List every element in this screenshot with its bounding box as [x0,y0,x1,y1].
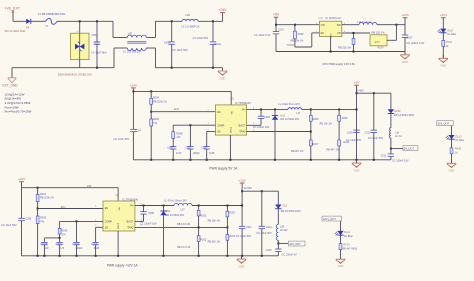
svg-text:EN: EN [321,32,325,35]
svg-text:GND: GND [239,264,245,268]
svg-text:+5V: +5V [273,13,280,17]
svg-text:C211: C211 [246,226,252,229]
svg-text:R102: R102 [298,33,304,36]
svg-text:BOOT: BOOT [127,221,134,224]
svg-text:3n3F: 3n3F [94,247,100,250]
svg-text:C205: C205 [185,146,191,149]
svg-text:R209: R209 [455,148,462,151]
svg-text:R205: R205 [153,118,160,121]
svg-text:LF 2.2: LF 2.2 [395,135,402,138]
svg-text:U2: U2 [231,97,235,101]
svg-text:CC 10uF 50V: CC 10uF 50V [114,137,130,141]
svg-text:R202: R202 [200,214,207,217]
svg-text:5V_OUT: 5V_OUT [404,147,415,151]
svg-text:C20M: C20M [72,243,78,246]
svg-text:C209: C209 [91,243,97,246]
svg-text:5.46V: 5.46V [357,89,364,93]
svg-text:C210: C210 [365,131,371,134]
svg-text:ESD-SMA24CA 170/BZ 24V: ESD-SMA24CA 170/BZ 24V [58,72,92,76]
svg-text:EN2: EN2 [174,108,179,111]
svg-text:CC 10uF 50V: CC 10uF 50V [346,139,361,142]
svg-text:CC 10uF 50V: CC 10uF 50V [368,137,383,140]
svg-text:PWR supply +12V 1A: PWR supply +12V 1A [107,264,139,268]
svg-text:RB 1% N.M.: RB 1% N.M. [177,223,191,226]
svg-text:C206: C206 [26,218,32,221]
svg-text:RB 1% N.M.: RB 1% N.M. [177,246,191,249]
svg-text:RB 19k 1%: RB 19k 1% [208,220,221,223]
svg-text:CC 10uF 50V: CC 10uF 50V [172,48,188,52]
svg-text:C209: C209 [347,131,353,134]
svg-text:LF 2.5 680P 2A: LF 2.5 680P 2A [182,24,200,28]
svg-text:+VE_EXT: +VE_EXT [5,7,21,11]
svg-text:R107: R107 [446,41,453,44]
svg-text:12V1_OUT: 12V1_OUT [323,217,336,221]
svg-text:5V@1A=5W: 5V@1A=5W [5,96,22,100]
svg-text:LF 222: LF 222 [280,229,288,232]
svg-text:TPAD: TPAD [239,131,245,134]
svg-text:R104: R104 [378,47,385,50]
svg-text:D10: D10 [283,205,288,208]
svg-text:L05: L05 [128,32,133,36]
svg-text:100pF: 100pF [193,152,201,155]
svg-text:D4: D4 [26,25,30,29]
svg-text:DR 1A 500A 100V: DR 1A 500A 100V [394,114,414,117]
svg-text:3.3V@0.5A=1.65W: 3.3V@0.5A=1.65W [5,101,31,105]
svg-text:C207: C207 [136,130,142,133]
svg-text:CC 10uF 50V: CC 10uF 50V [257,232,272,235]
svg-text:C207B: C207B [40,243,48,246]
svg-text:GND: GND [220,76,226,80]
svg-text:R209: R209 [62,230,69,233]
svg-text:1nF: 1nF [44,247,49,250]
svg-text:+24V: +24V [130,83,138,87]
svg-text:CC 100uF 16V: CC 100uF 16V [392,159,409,162]
svg-text:12V_OUT: 12V_OUT [289,242,301,246]
svg-text:DR 1A 500A 20V: DR 1A 500A 20V [166,214,185,217]
svg-text:VIN: VIN [119,207,121,211]
svg-text:GND3: GND3 [118,222,120,229]
svg-text:100pF: 100pF [75,247,83,250]
svg-text:D62: D62 [166,210,171,213]
svg-text:L14 1U 1uH: L14 1U 1uH [357,20,371,24]
svg-text:CC 100uF 6V: CC 100uF 6V [282,254,297,257]
svg-text:RB 10k 1%: RB 10k 1% [291,38,305,42]
svg-text:GND: GND [338,264,344,268]
svg-text:C208: C208 [56,243,62,246]
svg-text:RB 10k 1%: RB 10k 1% [320,123,333,126]
svg-text:R210: R210 [230,235,236,238]
svg-text:4n7F: 4n7F [59,247,65,250]
svg-text:IC TPS54240: IC TPS54240 [235,101,251,105]
svg-text:4n7F: 4n7F [176,152,182,155]
svg-text:EXT_GND: EXT_GND [3,84,19,88]
svg-text:CC 100uF 6.3V: CC 100uF 6.3V [407,41,425,45]
svg-text:SS: SS [105,227,109,230]
svg-text:GND: GND [402,60,408,64]
svg-text:SS: SS [217,131,221,134]
svg-text:C215: C215 [266,249,272,252]
svg-text:VIN: VIN [321,24,325,27]
svg-text:SM 1A 40kA 1kW: SM 1A 40kA 1kW [5,29,26,33]
svg-text:RB 4k7 1%: RB 4k7 1% [327,148,340,151]
svg-text:TP102: TP102 [287,43,295,47]
svg-text:DR 1A 500A 20V: DR 1A 500A 20V [280,118,299,121]
svg-text:C208: C208 [148,212,154,215]
svg-text:12.55V: 12.55V [244,186,252,190]
svg-text:RB 150 1%: RB 150 1% [372,30,386,34]
svg-text:VIN: VIN [232,111,234,115]
svg-text:DL Blue: DL Blue [344,235,353,238]
svg-text:LC 102 5x5 1A?: LC 102 5x5 1A? [123,50,142,54]
svg-text:IC TPS54240: IC TPS54240 [123,197,139,201]
svg-text:D102: D102 [395,110,402,113]
svg-text:C504: C504 [92,34,99,37]
svg-text:CV 16uF 5kV: CV 16uF 5kV [91,50,107,54]
svg-text:CC 100nF 16V: CC 100nF 16V [253,126,270,129]
svg-text:47U: 47U [375,40,380,44]
svg-text:R206: R206 [313,118,320,121]
svg-text:GND: GND [331,33,333,38]
svg-text:DL Blue: DL Blue [447,33,456,36]
svg-text:RB 4k7 0603: RB 4k7 0603 [343,247,358,250]
svg-text:24V: 24V [87,185,92,188]
svg-text:TPAD: TPAD [127,227,133,230]
svg-text:RB 22k 1%: RB 22k 1% [338,45,352,49]
svg-text:BOOT: BOOT [239,125,246,128]
svg-text:GND: GND [440,64,446,68]
svg-text:RB 220k 1%: RB 220k 1% [40,197,55,200]
svg-text:EN: EN [105,207,109,210]
svg-text:R207: R207 [312,143,319,146]
svg-text:+3V3: +3V3 [401,13,409,17]
svg-text:C1%: C1% [279,29,285,32]
svg-text:CC 10uF 50V: CC 10uF 50V [1,223,17,227]
svg-text:5V1_OUT: 5V1_OUT [438,122,450,126]
svg-text:+12V: +12V [238,178,246,182]
svg-text:CC 10uF 50V: CC 10uF 50V [236,235,251,238]
svg-text:LL 10uH 5mm 2A?: LL 10uH 5mm 2A? [278,102,300,106]
svg-text:COMP: COMP [217,124,225,127]
svg-text:+5V: +5V [354,81,361,85]
svg-text:C204: C204 [167,146,173,149]
svg-text:DR 1A 500A 100V: DR 1A 500A 100V [281,210,301,213]
svg-text:3n3F: 3n3F [209,152,215,155]
svg-text:L26: L26 [186,13,191,17]
svg-text:R209: R209 [342,117,348,120]
svg-text:U-2: U-2 [319,16,324,20]
svg-text:RB 2k7 1%: RB 2k7 1% [291,150,304,153]
svg-text:L27: L27 [181,208,186,211]
svg-text:DL14: DL14 [344,231,351,234]
svg-text:FB: FB [338,32,341,35]
svg-text:x10Q: x10Q [94,42,100,45]
svg-text:EN3: EN3 [61,206,66,209]
svg-text:C205: C205 [264,116,270,119]
svg-text:C214: C214 [266,226,272,229]
svg-text:GND2: GND2 [231,126,233,133]
svg-text:IC 3A3V0-C6: IC 3A3V0-C6 [326,16,342,20]
svg-text:PH: PH [242,109,246,112]
svg-text:CPC PWR supply 3.3V 0.5A: CPC PWR supply 3.3V 0.5A [322,62,355,66]
svg-text:CC 10uF 6.3V: CC 10uF 6.3V [254,33,271,37]
svg-text:U3: U3 [116,193,120,197]
svg-text:GND: GND [449,169,455,173]
svg-text:GND: GND [354,168,360,172]
svg-text:R208: R208 [177,132,184,135]
svg-text:F1 MF-NSMF050-XXG: F1 MF-NSMF050-XXG [38,12,65,16]
svg-text:C10Q: C10Q [214,43,221,46]
svg-text:+3V3: +3V3 [440,13,448,17]
svg-text:PWR supply 5V 1A: PWR supply 5V 1A [209,167,238,171]
svg-text:L17: L17 [296,112,301,115]
svg-text:EN: EN [217,111,221,114]
svg-text:R203: R203 [200,239,207,242]
svg-text:C30N: C30N [164,41,171,44]
svg-text:CC 10uF 50V: CC 10uF 50V [193,36,209,40]
svg-text:L16: L16 [395,131,400,134]
svg-text:+24V: +24V [18,177,26,181]
svg-text:C206: C206 [201,146,207,149]
svg-text:RB 8k2 1%: RB 8k2 1% [208,240,221,243]
svg-text:C107: C107 [407,36,414,39]
svg-text:R204: R204 [153,97,160,100]
svg-text:R205: R205 [40,217,47,220]
svg-text:RB 220k 1%: RB 220k 1% [153,101,168,104]
svg-text:PH: PH [130,205,134,208]
svg-text:C211: C211 [381,155,387,158]
svg-text:LL 47uH 10mm 1A?: LL 47uH 10mm 1A? [164,199,188,203]
svg-text:+24V: +24V [219,8,228,12]
svg-text:R214: R214 [344,244,351,247]
svg-text:COMP: COMP [105,221,113,224]
svg-text:R207: R207 [230,212,236,215]
svg-text:DL Blue: DL Blue [456,139,465,142]
svg-text:CC 100nF 16V: CC 100nF 16V [140,222,157,225]
svg-text:Pin=Pout/0.75=25W: Pin=Pout/0.75=25W [5,109,32,113]
svg-text:R204: R204 [40,193,47,196]
